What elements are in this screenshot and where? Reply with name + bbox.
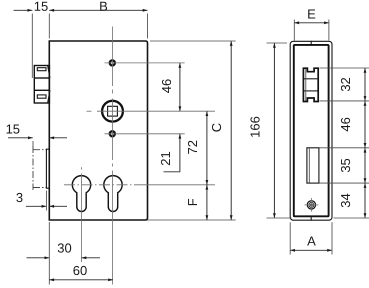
svg-text:C: C bbox=[209, 123, 224, 132]
svg-text:21: 21 bbox=[158, 151, 173, 165]
svg-text:F: F bbox=[185, 198, 200, 206]
svg-text:B: B bbox=[99, 0, 108, 14]
svg-text:32: 32 bbox=[338, 77, 353, 91]
svg-text:60: 60 bbox=[73, 263, 87, 278]
svg-text:15: 15 bbox=[34, 0, 48, 14]
svg-text:15: 15 bbox=[6, 121, 20, 136]
svg-text:E: E bbox=[307, 6, 316, 21]
svg-text:35: 35 bbox=[338, 158, 353, 172]
svg-text:72: 72 bbox=[185, 140, 200, 154]
svg-text:34: 34 bbox=[338, 193, 353, 207]
svg-text:A: A bbox=[307, 233, 316, 248]
svg-text:3: 3 bbox=[16, 190, 23, 205]
svg-text:46: 46 bbox=[338, 117, 353, 131]
svg-text:46: 46 bbox=[159, 79, 174, 93]
svg-text:30: 30 bbox=[57, 240, 71, 255]
svg-text:166: 166 bbox=[248, 116, 263, 138]
